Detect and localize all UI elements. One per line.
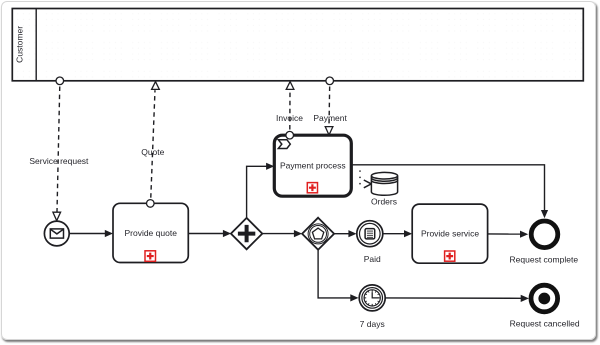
end event Request complete (531, 221, 558, 248)
sequence flow parallel gateway right to event gateway (262, 230, 302, 237)
task Provide quote (113, 203, 188, 262)
message flow Service request (pool to start event) (53, 77, 64, 221)
sequence flow Provide service to Request complete (488, 231, 529, 238)
svg-text:Request cancelled: Request cancelled (510, 318, 580, 328)
sequence flow Paid to Provide service (383, 230, 412, 237)
svg-text:7 days: 7 days (360, 319, 385, 329)
message flow Quote (task to pool) (147, 82, 160, 208)
sequence flow start to Provide quote (69, 230, 113, 237)
svg-text:Payment process: Payment process (280, 160, 346, 170)
end event Request cancelled (terminate) (531, 285, 558, 312)
task Provide service (412, 204, 487, 263)
subprocess Payment process (thick border) (274, 135, 351, 196)
start event Service request (44, 221, 69, 246)
svg-text:Customer: Customer (15, 26, 25, 63)
sequence flow Payment process to Request complete (351, 165, 548, 218)
subprocess marker (red) on Payment process (307, 183, 317, 193)
event gateway (302, 218, 334, 250)
subprocess marker (red) on Provide service (445, 251, 455, 261)
svg-text:Provide service: Provide service (421, 229, 479, 239)
intermediate timer event 7 days (359, 285, 385, 311)
sequence flow Provide quote to parallel gateway (188, 230, 231, 237)
sequence flow event gateway down to 7 days timer (318, 250, 358, 302)
sequence flow 7 days to Request cancelled (385, 295, 529, 302)
pool Customer (12, 9, 583, 81)
svg-text:Paid: Paid (364, 254, 381, 264)
subprocess marker (red) on Provide quote (145, 251, 156, 261)
intermediate event Paid (357, 221, 383, 247)
svg-text:Payment: Payment (313, 113, 347, 123)
sequence flow parallel gateway up to Payment process (247, 163, 275, 218)
svg-text:Request complete: Request complete (510, 255, 579, 265)
message flow Payment (pool to Payment process) (325, 77, 333, 135)
chevron marker on Payment process (278, 140, 290, 149)
svg-text:Provide quote: Provide quote (124, 228, 177, 238)
data store Orders (371, 172, 397, 195)
svg-text:Orders: Orders (371, 197, 397, 207)
svg-text:Service request: Service request (29, 156, 89, 166)
data association Payment process to Orders (360, 167, 371, 188)
sequence flow event gateway to Paid (334, 230, 357, 237)
message flow Invoice (Payment process to pool) (286, 82, 294, 139)
parallel gateway (231, 218, 262, 249)
